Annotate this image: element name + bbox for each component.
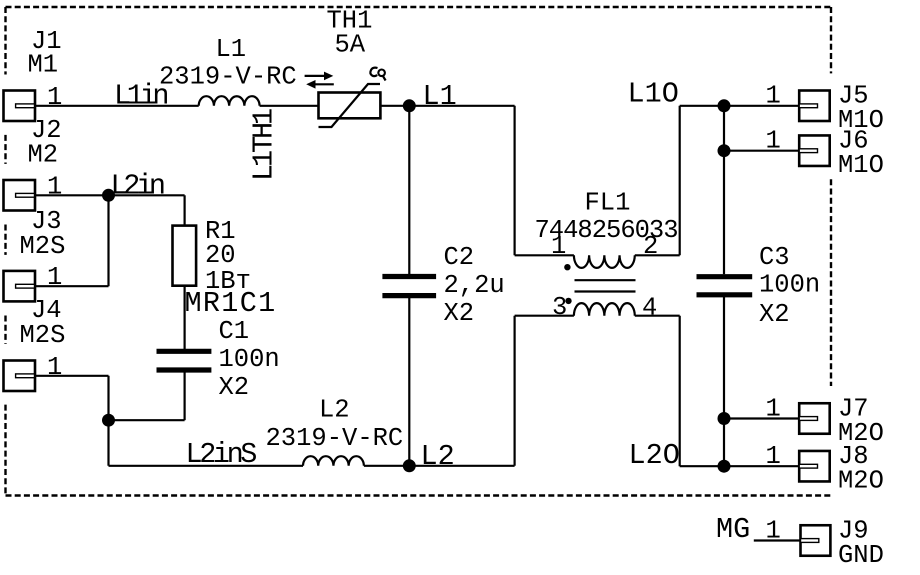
wire net L1 vertical from corner down to FL1 pin 1 [513,106,515,256]
svg-text:MG: MG [716,513,750,546]
wire net L1O branch to J6 [724,106,799,151]
svg-text:C1: C1 [219,317,250,346]
svg-text:1: 1 [766,517,781,546]
svg-text:M1: M1 [28,51,59,80]
connector J2 box [4,180,36,211]
svg-text:X2: X2 [444,299,475,328]
svg-text:1: 1 [47,83,62,112]
svg-text:MR1C1: MR1C1 [185,287,277,320]
svg-text:1: 1 [47,353,62,382]
svg-text:2: 2 [643,232,658,261]
choke FL1 polarity dot pin3 [565,298,571,304]
svg-text:5A: 5A [335,31,366,60]
svg-text:M2O: M2O [838,467,884,496]
wire FL1 pin3 lead [515,315,574,317]
svg-text:GND: GND [838,541,884,570]
thermistor TH1 arrow left [315,83,334,85]
capacitor C2 plates [382,277,436,296]
svg-text:C3: C3 [759,243,790,272]
capacitor C1 plates [157,351,212,370]
svg-text:1: 1 [766,127,781,156]
svg-text:M2S: M2S [20,321,66,350]
svg-text:1: 1 [766,442,781,471]
capacitor C3 plates [697,277,753,295]
wire net L1O vertical from FL1 pin2 up [679,106,681,256]
svg-text:L1: L1 [423,80,457,113]
svg-text:X2: X2 [759,300,790,329]
wire net L2O vertical from FL1 pin4 down [679,316,681,467]
svg-text:100n: 100n [759,271,820,300]
inductor L1 coil [199,96,260,106]
svg-text:M1O: M1O [838,151,884,180]
svg-text:L1TH1: L1TH1 [248,109,281,181]
svg-text:20: 20 [205,241,236,270]
connector J7 box [799,403,830,434]
wire net L2 from C2 bottom to rail [408,298,410,466]
junction node L1O at J5 [718,99,731,112]
choke FL1 winding 3-4 [574,303,635,316]
choke FL1 core lines [575,280,636,291]
connector J6 box [799,135,830,166]
svg-text:4: 4 [642,294,657,323]
connector J1 box [4,91,36,122]
wire net L2 from C2 column to FL1 pin3 corner [364,465,515,467]
wire net L1 vertical from node down to C2 [408,106,410,274]
junction node L2in [102,189,115,202]
junction node L2O at J7 [718,412,731,425]
border frame bottom [6,494,832,496]
wire net L2O branch to J7 [724,417,799,419]
wire net L2inS vertical from J4 wire down to rail [107,376,109,466]
svg-text:L1O: L1O [628,78,679,111]
resistor R1 body [173,226,197,286]
border frame right [830,7,832,386]
connector J9 box [801,525,831,556]
junction node L1 [403,99,416,112]
svg-text:1: 1 [551,232,566,261]
svg-text:M2: M2 [28,141,59,170]
connector J5 box [799,91,830,122]
svg-text:100n: 100n [219,345,280,374]
junction node L1O at J6 [718,144,731,157]
svg-text:L2in: L2in [111,169,164,202]
junction node L2inS left [102,414,115,427]
svg-text:L2: L2 [421,440,455,473]
svg-text:L2O: L2O [629,439,680,472]
thermistor TH1 body [319,93,381,119]
wire net MG stub to J9 [754,539,801,541]
wire net L2in vertical node to J3 wire [107,195,109,286]
thermistor TH1 diagonal stroke [319,84,381,127]
svg-text:1: 1 [47,172,62,201]
svg-text:2319-V-RC: 2319-V-RC [159,62,297,91]
wire link node to C1 bottom [109,419,185,421]
connector J8 box [799,451,830,482]
wire net MR1C1 from R1 bottom to C1 [184,285,186,350]
svg-text:3: 3 [552,293,567,322]
wire net L2inS vertical from FL1 pin3 down [513,316,515,466]
svg-text:M2S: M2S [20,232,66,261]
choke FL1 polarity dot pin1 [564,264,570,270]
svg-text:2,2u: 2,2u [444,271,505,300]
inductor L2 coil [303,456,364,466]
wire net L2in from J2 to node and R1 [35,194,185,196]
wire net L1O down to C3 [723,151,725,275]
wire net L2inS from J4 [35,375,109,377]
svg-text:1: 1 [47,263,62,292]
junction node L2O at J8 [718,460,731,473]
wire C1 bottom lead down [184,373,186,421]
wire net L2in from J3 [35,285,109,287]
svg-text:X2: X2 [219,373,250,402]
wire net L1in from J1 to L1 [35,105,199,107]
svg-text:2319-V-RC: 2319-V-RC [266,424,404,453]
wire from C3 bottom to J7/J8 column [723,297,725,466]
thermistor TH1 t-degree mark [370,68,377,77]
svg-text:C2: C2 [444,243,475,272]
wire net L2inS rail from node to L2 [109,465,304,467]
svg-text:L1: L1 [216,35,247,64]
wire FL1 pin1 lead [515,254,574,256]
wire net L1TH1 from L1 to TH1 and net L1 from TH1 to FL1 pin1 corner [260,105,515,107]
choke FL1 winding 1-2 [574,255,635,268]
svg-text:L2inS: L2inS [186,438,257,471]
border frame left [4,7,6,496]
connector J4 box [4,361,36,392]
svg-text:FL1: FL1 [585,188,631,217]
wire R1 top lead [184,195,186,227]
wire net L1O horizontal to J5 [680,105,800,107]
svg-text:1: 1 [766,395,781,424]
wire FL1 pin4 lead [635,315,680,317]
thermistor TH1 arrow right [305,75,325,77]
wire FL1 pin2 lead [635,254,680,256]
junction node L2 [403,459,416,472]
svg-text:L2: L2 [319,396,350,425]
connector J3 box [4,271,36,302]
svg-text:1: 1 [766,82,781,111]
wire net L2O from FL1 pin4 corner to J8 [680,465,800,467]
border frame top [6,6,832,8]
